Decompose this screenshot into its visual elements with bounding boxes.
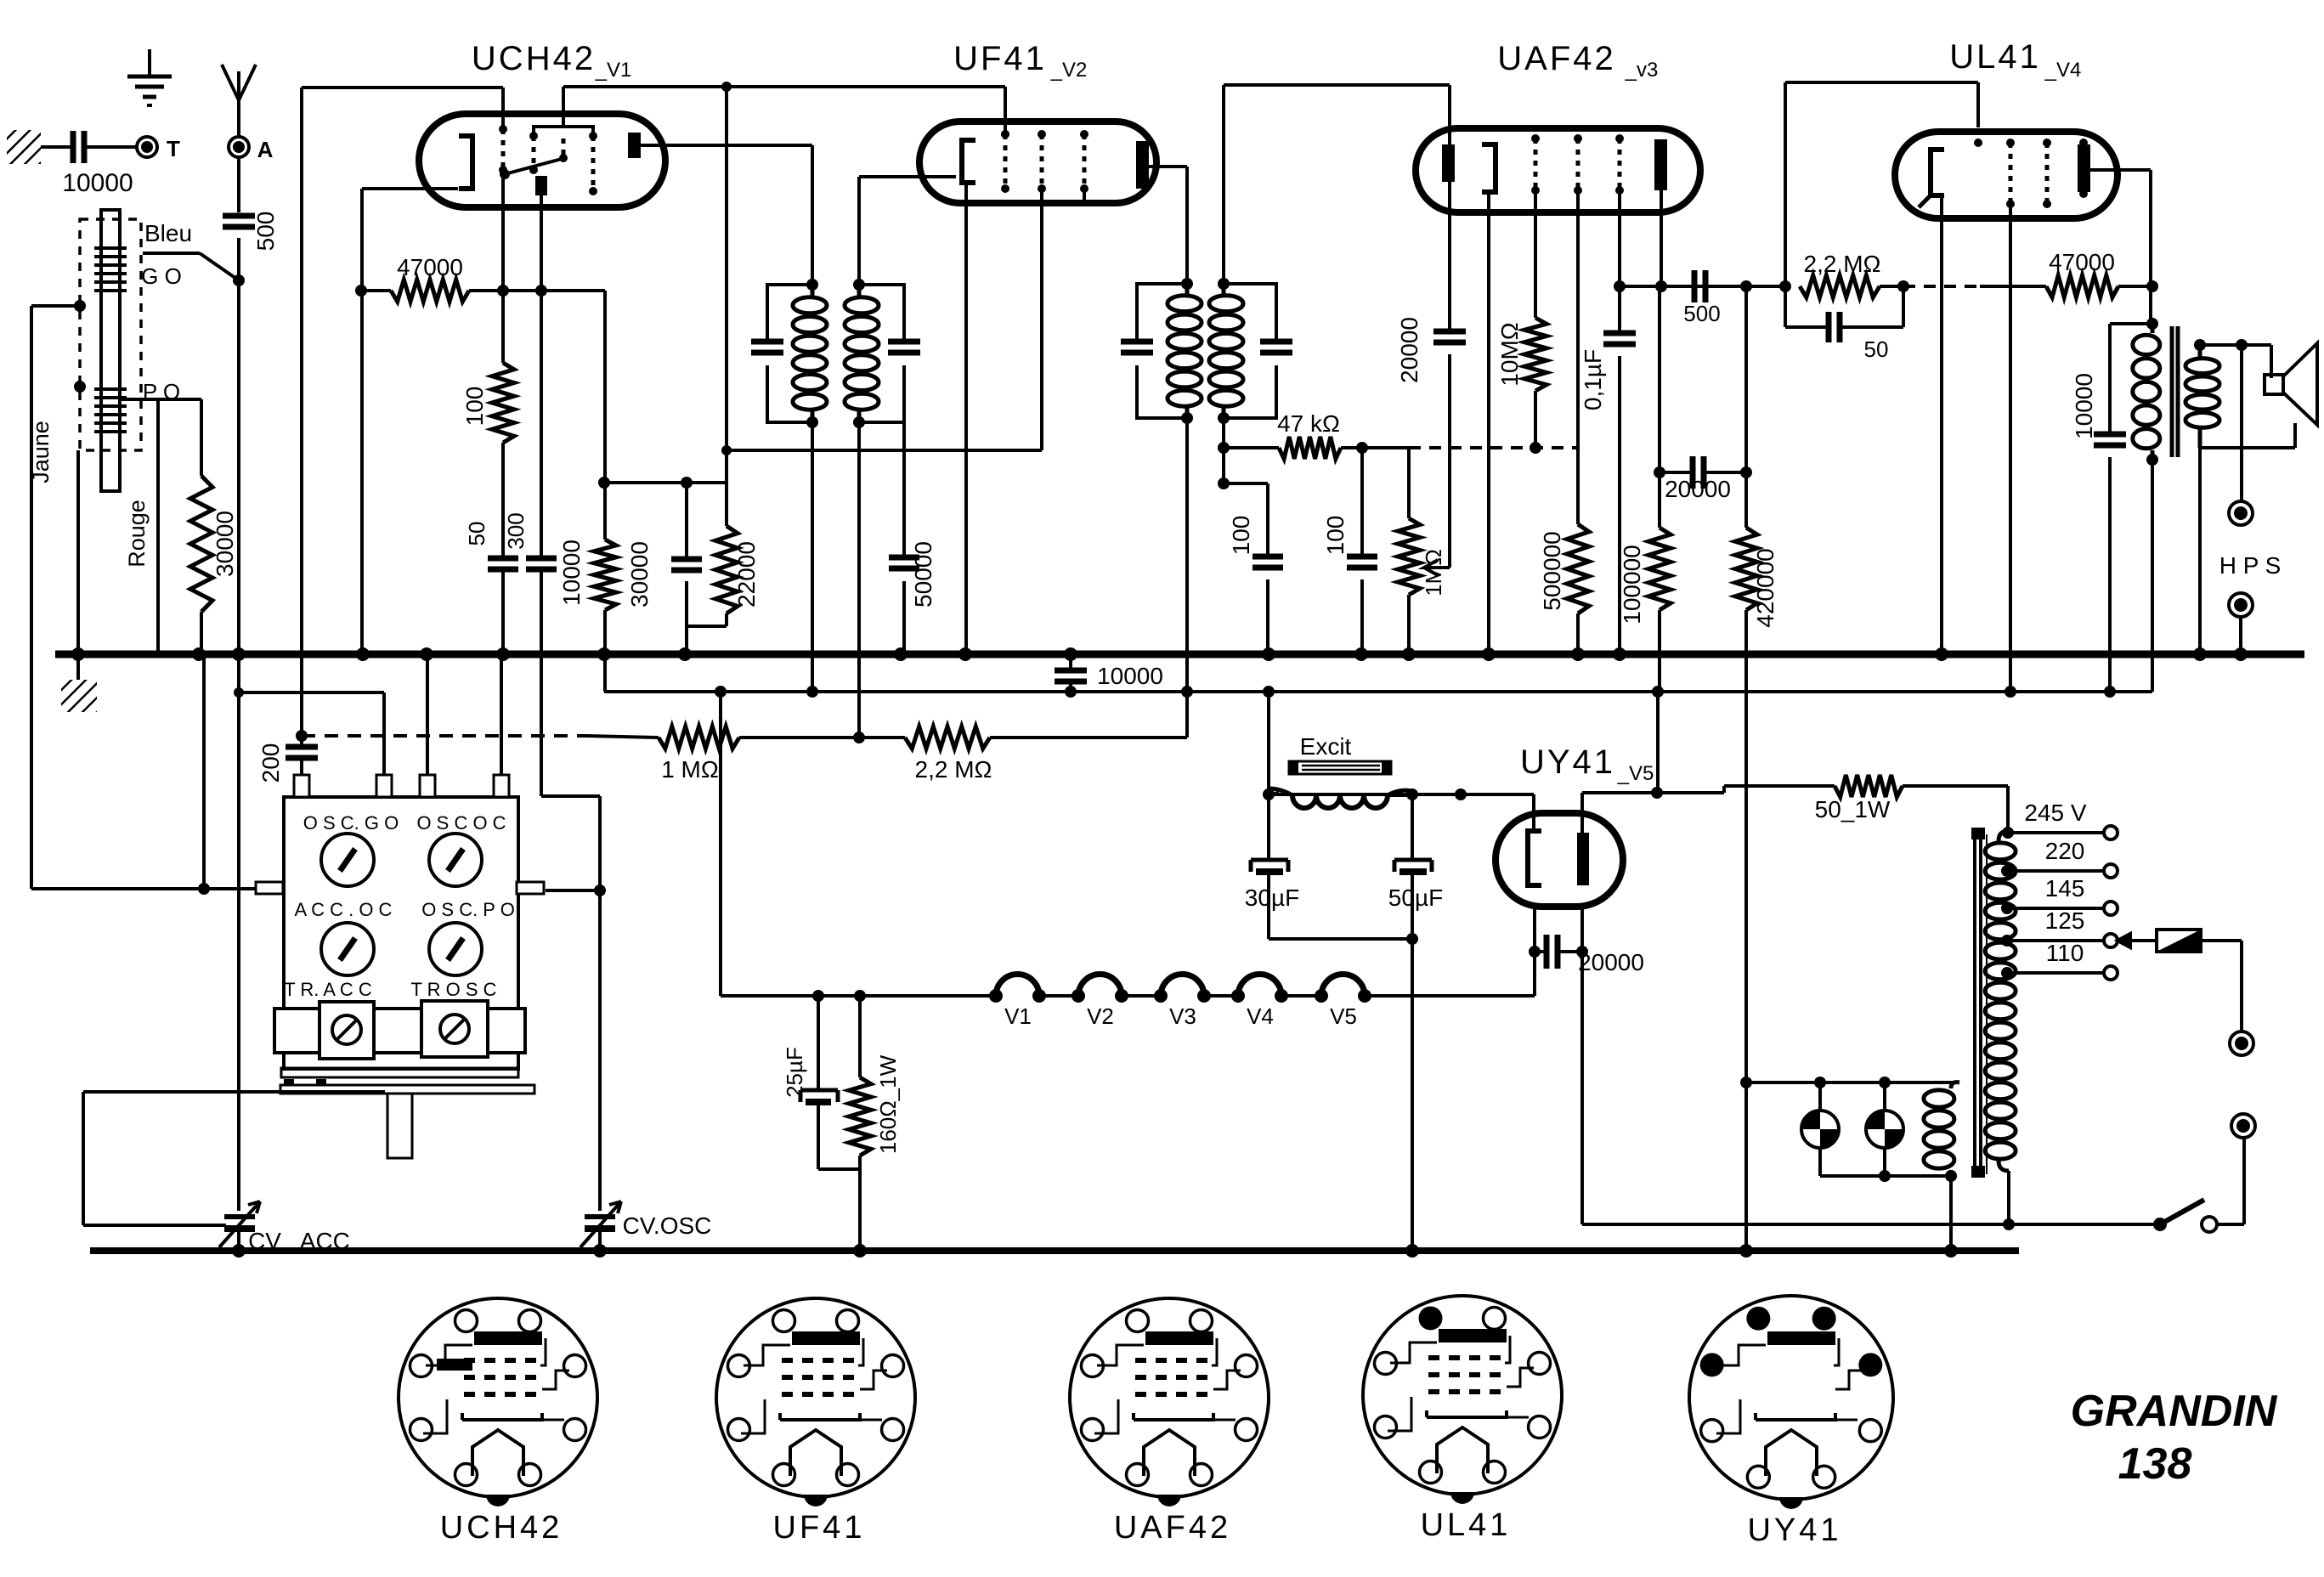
trimmer ACC square — [319, 1002, 374, 1059]
V1 cathode — [459, 136, 472, 189]
right pin wire — [546, 889, 600, 892]
svg-text:30µF: 30µF — [1245, 885, 1299, 911]
svg-text:UAF42: UAF42 — [1497, 40, 1616, 77]
anode line to 50ohm — [1582, 791, 1724, 794]
capacitor 500 (antenna series) — [223, 213, 255, 219]
V1 plate wire to IFT1 — [641, 144, 812, 147]
svg-text:V3: V3 — [1169, 1003, 1196, 1029]
V2 grid3 — [1083, 134, 1087, 189]
svg-text:UF41: UF41 — [773, 1510, 866, 1546]
25µF cap — [817, 996, 820, 1088]
svg-text:138: 138 — [2118, 1439, 2192, 1489]
resistor 22000 — [725, 483, 728, 526]
V2 grid2 — [1040, 134, 1044, 189]
svg-text:1 MΩ: 1 MΩ — [661, 756, 719, 783]
line to 47000 — [1903, 285, 1980, 288]
IFT1 primary coil — [793, 297, 827, 314]
svg-text:50000: 50000 — [910, 541, 936, 608]
svg-text:O S C. G O: O S C. G O — [303, 812, 399, 834]
cap 10000 (tone) — [2110, 322, 2152, 325]
mains switch — [2153, 1218, 2167, 1231]
V3 grid cap entry — [1448, 128, 1451, 144]
V1 g3 riser to V2 line — [562, 87, 565, 127]
svg-text:200: 200 — [257, 743, 284, 783]
resistor 30000 (left) — [200, 399, 203, 476]
resistor 47000 (UL41 plate R?) — [2046, 275, 2118, 297]
Bleu tap wire — [143, 252, 200, 255]
B+ line (cathode side) — [1269, 793, 1534, 796]
V3 g3 drop + 0,1µF — [1618, 190, 1621, 286]
wire left from coil to long left rail — [31, 304, 80, 308]
V1 grid 3 — [562, 138, 566, 158]
chassis hatch below bus — [71, 647, 85, 661]
svg-text:50_1W: 50_1W — [1815, 796, 1891, 822]
V1 diagonal (triode grid link) — [505, 159, 562, 174]
svg-text:V1: V1 — [1004, 1003, 1032, 1029]
resistor 1 MΩ — [659, 726, 739, 749]
V2 cathode drop to bus — [964, 183, 968, 654]
svg-text:500: 500 — [252, 212, 279, 252]
resistor 50_1W — [1835, 775, 1903, 797]
V1 g2/g4 bracket — [534, 127, 593, 136]
IFT1 sec top to V2 cathode — [857, 177, 861, 285]
screen riser to g3 line — [725, 87, 728, 483]
svg-text:500000: 500000 — [1539, 531, 1565, 610]
svg-text:420000: 420000 — [1752, 548, 1778, 627]
svg-text:A C C . O C: A C C . O C — [295, 899, 393, 920]
svg-text:100: 100 — [1322, 516, 1349, 556]
V2 cathode — [962, 140, 975, 183]
V3 cathode — [1482, 144, 1496, 192]
svg-text:A: A — [257, 137, 274, 162]
V1 plate — [628, 133, 641, 158]
V3 grid3 — [1618, 138, 1622, 190]
ground symbol (earth) top left — [148, 49, 151, 76]
top pins — [294, 775, 309, 797]
V2 g2 drop to screen line — [1040, 189, 1043, 450]
capacitor 30000 — [685, 483, 688, 557]
V1 grid 2 — [532, 136, 536, 170]
coil winding hatches PO — [94, 387, 127, 391]
IFT1 primary bottom drop — [811, 422, 814, 692]
V3 diode pin drop — [1448, 182, 1451, 330]
primary winding — [1924, 1090, 1954, 1107]
socket UAF42 — [1070, 1298, 1269, 1497]
V2 plate wire to IFT2 — [1149, 165, 1187, 168]
svg-text:50: 50 — [464, 522, 489, 546]
OT core — [2170, 326, 2174, 457]
125V arrow — [2118, 934, 2157, 947]
V3 grid1 — [1534, 138, 1538, 190]
V4 plate — [2078, 144, 2090, 192]
svg-text:125: 125 — [2045, 907, 2085, 934]
svg-text:30000: 30000 — [626, 541, 653, 608]
pot wiper arrow from 20000 cap — [1424, 560, 1450, 575]
antenna symbol — [222, 65, 256, 100]
svg-text:47000: 47000 — [397, 254, 463, 280]
node on dashed line — [74, 300, 86, 312]
trimmer OSC square — [421, 1001, 488, 1057]
svg-text:20000: 20000 — [1578, 949, 1644, 975]
V5 anode stub — [1580, 793, 1584, 833]
V4 grid1 — [2009, 143, 2013, 204]
svg-text:500: 500 — [1683, 301, 1720, 326]
svg-text:T: T — [167, 136, 180, 161]
V1 g4/screen column + resistor 10000 — [603, 291, 607, 540]
stem — [387, 1094, 412, 1158]
V3 g2 drop + 500000 — [1576, 190, 1580, 524]
V5 cathode stub — [1532, 794, 1535, 831]
V4 grid2 — [2045, 143, 2050, 204]
IFT2 primary bottom drop to B- and AVC — [1185, 418, 1189, 738]
antenna lead down — [237, 157, 240, 212]
V4 plate wire — [2090, 168, 2151, 172]
tank3 feed: 47k line — [1222, 418, 1225, 448]
osc pin3 riser from bus — [426, 654, 429, 775]
svg-text:V2: V2 — [1087, 1003, 1114, 1029]
primary top wire / lamps — [1746, 1081, 1954, 1084]
V3 grid2 — [1576, 138, 1580, 190]
svg-text:V5: V5 — [1330, 1003, 1357, 1029]
knobs row2 — [321, 923, 374, 975]
svg-text:0,1µF: 0,1µF — [1580, 349, 1606, 410]
V3 g1 drop + 10MΩ — [1534, 190, 1537, 318]
svg-text:Bleu: Bleu — [144, 220, 192, 246]
svg-text:2,2 MΩ: 2,2 MΩ — [915, 756, 992, 783]
2,2 MΩ + 50 parallel — [1800, 275, 1880, 297]
svg-text:UAF42: UAF42 — [1114, 1510, 1231, 1546]
voltage selector jacks — [2230, 1032, 2253, 1055]
svg-text:22000: 22000 — [733, 541, 760, 608]
IFT2 primary coil — [1168, 296, 1202, 312]
cap bottoms to bottom bus — [1269, 937, 1412, 941]
long left vertical rail — [30, 306, 33, 889]
OT primary — [2133, 335, 2160, 354]
secondary winding — [1985, 843, 2016, 860]
dashed AVC to 500000 — [1409, 446, 1578, 449]
V4 grid cap dot — [1974, 138, 1982, 147]
V4 cathode drop to bus — [1940, 195, 1943, 654]
V2 g3 elbow — [1049, 189, 1084, 202]
svg-text:_V4: _V4 — [2044, 59, 2082, 82]
V1 grid 1 — [501, 129, 506, 170]
svg-text:160Ω_1W: 160Ω_1W — [875, 1054, 901, 1154]
svg-text:145: 145 — [2045, 875, 2085, 902]
HPS jack 2 — [2229, 593, 2253, 617]
V2 grid1 — [1004, 134, 1008, 189]
svg-text:47000: 47000 — [2049, 249, 2115, 275]
triode plate drop continues to CV.OSC line — [540, 654, 543, 796]
dashed selector box — [80, 219, 141, 450]
node: antenna junction — [233, 274, 245, 286]
IFT2 sec top riser to V3 grid line — [1222, 85, 1225, 284]
svg-text:T R. A C C: T R. A C C — [284, 979, 372, 1000]
socket UL41 — [1363, 1296, 1562, 1495]
svg-text:V4: V4 — [1247, 1003, 1274, 1029]
svg-text:10000: 10000 — [558, 540, 585, 606]
245V riser from 50ohm — [2002, 827, 2014, 839]
capacitor 200 — [296, 730, 308, 742]
V1 cathode exit wire — [362, 187, 458, 190]
160Ω 1W resistor — [858, 996, 862, 1077]
svg-text:100: 100 — [1228, 516, 1254, 556]
resistor 420000 — [1744, 286, 1748, 528]
V1 cathode drop — [360, 189, 364, 654]
lower plates — [281, 1068, 518, 1077]
V4 g1 drop to B- rail — [2009, 204, 2012, 692]
svg-text:UY41: UY41 — [1520, 743, 1615, 781]
V4 grid feed — [1784, 82, 1787, 286]
dial lamp 1 — [1818, 1082, 1822, 1111]
cap 100 (a) — [1222, 448, 1225, 483]
cap 100 (b) — [1360, 448, 1364, 555]
svg-text:220: 220 — [2045, 838, 2085, 864]
IFT1 secondary bottom to AVC — [857, 422, 861, 738]
svg-text:G O: G O — [141, 263, 182, 289]
heater bumps V1..V5 — [996, 975, 1039, 997]
V5 cathode — [1528, 831, 1541, 885]
svg-text:UL41: UL41 — [1421, 1507, 1512, 1543]
side pins — [256, 882, 283, 894]
CV_ACC symbol — [224, 1214, 255, 1219]
svg-text:GRANDIN: GRANDIN — [2071, 1387, 2278, 1436]
dial lamp 2 — [1883, 1082, 1886, 1111]
V3 cathode drop — [1487, 192, 1490, 654]
svg-text:CV.OSC: CV.OSC — [623, 1212, 712, 1239]
svg-text:_V1: _V1 — [595, 59, 632, 82]
frame link to CV caps — [83, 1090, 385, 1094]
CV_OSC symbol — [585, 1214, 615, 1219]
svg-text:10MΩ: 10MΩ — [1496, 322, 1523, 386]
svg-text:O S C. P O: O S C. P O — [421, 899, 515, 920]
socket UCH42 — [399, 1298, 597, 1497]
svg-text:110: 110 — [2046, 940, 2084, 966]
lamp bottom rail — [1820, 1174, 1951, 1178]
V3 plate — [1654, 139, 1667, 190]
svg-text:100000: 100000 — [1619, 545, 1645, 624]
Rouge wire — [156, 399, 160, 654]
primary bottom drop to bottom bus — [1949, 1176, 1953, 1251]
V3 plate drop — [1660, 190, 1663, 286]
svg-text:30000: 30000 — [212, 511, 238, 577]
svg-text:Jaune: Jaune — [28, 421, 54, 483]
antenna coil assembly: core — [101, 210, 120, 491]
svg-text:H P S: H P S — [2219, 552, 2282, 579]
V1 grid line / osc pin1 column — [300, 88, 303, 736]
taps — [2008, 831, 2105, 834]
trimmer bar — [274, 1009, 525, 1053]
svg-text:UY41: UY41 — [1747, 1512, 1841, 1548]
svg-text:20000: 20000 — [1396, 317, 1422, 383]
svg-text:47 kΩ: 47 kΩ — [1277, 410, 1340, 437]
svg-text:10000: 10000 — [1097, 663, 1163, 689]
terminal A — [229, 137, 249, 157]
knobs row1 — [321, 834, 374, 886]
V1 triode plate — [535, 176, 547, 195]
svg-text:Excit: Excit — [1300, 733, 1352, 760]
ground drop from coil — [76, 450, 80, 654]
V1 g1 drop + resistor 100 + capacitor 50 — [501, 170, 505, 363]
IFT1 secondary coil — [845, 297, 879, 314]
svg-text:_V2: _V2 — [1050, 59, 1088, 82]
capacitor 20000 (AF coupling) — [1433, 329, 1466, 335]
svg-text:25µF: 25µF — [782, 1047, 807, 1098]
volume pot 1MΩ — [1407, 448, 1411, 518]
capacitor 500 (IF out) — [1692, 270, 1698, 302]
V2 plate — [1136, 141, 1149, 189]
svg-text:50: 50 — [1864, 336, 1889, 362]
coil winding hatches GO — [94, 246, 127, 250]
svg-text:2,2 MΩ: 2,2 MΩ — [1804, 251, 1881, 277]
svg-text:245 V: 245 V — [2024, 800, 2086, 826]
47000 line — [361, 289, 391, 292]
svg-text:10000: 10000 — [62, 169, 133, 197]
link from antenna line to osc pin 2 — [239, 691, 384, 694]
svg-text:300: 300 — [503, 512, 529, 549]
secondary bottom tail — [2007, 1171, 2010, 1224]
V4 cathode — [1931, 150, 1944, 195]
svg-text:20000: 20000 — [1665, 476, 1731, 502]
V4 grid3 — [2082, 143, 2086, 194]
resistor 2,2 MΩ — [905, 726, 990, 749]
V5 plate — [1577, 833, 1589, 885]
IFT1 primary frame + cap — [767, 285, 812, 340]
Excit winding — [1292, 795, 1388, 808]
screen dropper rail — [604, 481, 727, 484]
left pin wire — [31, 887, 256, 890]
Excit core bar — [1289, 761, 1391, 774]
terminal T — [137, 137, 157, 157]
50000 cap drop — [902, 365, 906, 556]
core — [1973, 831, 1976, 1178]
V1 grid 4 — [591, 136, 596, 191]
resistor 47 kΩ — [1279, 437, 1341, 459]
svg-text:UL41: UL41 — [1949, 38, 2041, 76]
socket UY41 — [1689, 1296, 1893, 1500]
B+ distribution riser — [1658, 286, 1661, 472]
OT secondary — [2185, 359, 2219, 374]
secondary top wire to speaker — [2200, 343, 2271, 347]
svg-text:50µF: 50µF — [1388, 885, 1443, 911]
heater pins + 20000 cap — [1533, 907, 1536, 996]
capacitor 10000 (antenna earth) — [41, 145, 73, 149]
V1 grid cap riser — [501, 88, 505, 129]
svg-text:10000: 10000 — [2071, 373, 2097, 439]
speaker — [2265, 375, 2283, 394]
svg-text:_v3: _v3 — [1625, 59, 1659, 82]
svg-text:_V5: _V5 — [1617, 762, 1654, 785]
IFT2 secondary frame + cap — [1224, 284, 1276, 340]
resistor 100000 — [1648, 528, 1671, 610]
HPS jack 1 — [2240, 345, 2243, 501]
svg-text:Rouge: Rouge — [124, 500, 150, 568]
secondary bottom wire — [2200, 446, 2295, 449]
socket UF41 — [716, 1298, 915, 1497]
IFT2 secondary coil — [1209, 296, 1243, 312]
svg-text:T R O S C: T R O S C — [410, 979, 496, 1000]
V3 diode plate — [1442, 144, 1455, 182]
V1 triode plate drop + capacitor 300 — [540, 195, 543, 557]
V2 grid cap entry — [1001, 130, 1009, 138]
capacitor 50µF — [1411, 794, 1414, 858]
svg-text:O S C O C: O S C O C — [416, 812, 506, 834]
V2 screen line — [727, 449, 1042, 452]
capacitor 20000 (B+ to det) — [1660, 471, 1693, 474]
svg-text:100: 100 — [461, 387, 488, 427]
svg-text:UF41: UF41 — [953, 40, 1047, 77]
IFT1 secondary frame + cap — [859, 285, 904, 340]
svg-text:UCH42: UCH42 — [472, 40, 596, 77]
B- feed drop — [1267, 692, 1270, 794]
capacitor 30µF — [1267, 794, 1270, 858]
svg-text:UCH42: UCH42 — [440, 1510, 563, 1546]
